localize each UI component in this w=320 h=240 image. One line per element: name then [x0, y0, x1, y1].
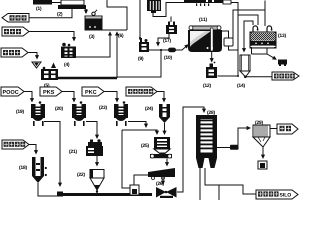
- wire neutralizer to tank (4): [29, 32, 74, 41]
- wire nested loop C to column (14): [244, 21, 253, 52]
- wire furnace right pipe: [222, 31, 229, 38]
- wire (20) to (21): [86, 122, 97, 139]
- label (26): [156, 181, 164, 186]
- wire (19) out: [44, 122, 60, 187]
- wire tower legs down: [199, 168, 201, 200]
- thick conveyor bar: [60, 193, 152, 196]
- pump (10): [168, 48, 176, 53]
- label (18): [19, 165, 27, 170]
- wire nested loop A: [233, 1, 265, 39]
- wire cyclone bottom to collector: [262, 147, 264, 158]
- callout hammer mill: [126, 87, 157, 96]
- tank (3): [85, 16, 102, 30]
- label (5): [44, 83, 49, 88]
- wire cake to (18): [29, 145, 36, 154]
- wire stub to (17): [170, 17, 172, 23]
- small box top right of dashes: [223, 0, 231, 4]
- mixer (5): [41, 63, 58, 81]
- wire branch down: [218, 185, 220, 200]
- callout dewatered cake: [2, 140, 29, 149]
- wire main line to furnace: [149, 45, 188, 50]
- label (13): [278, 33, 286, 38]
- tank (20): [72, 101, 86, 126]
- dryer (1) cut off at top: [33, 0, 52, 5]
- wire (17) down to main line: [158, 34, 169, 46]
- tower (28): [196, 115, 217, 168]
- reactor (4): [61, 43, 76, 58]
- mixer (25): [154, 137, 170, 156]
- wire (2) to tank (3): [85, 9, 87, 13]
- label (28): [207, 110, 215, 115]
- wire (4) to collect: [76, 32, 110, 57]
- label (17): [163, 38, 171, 43]
- pump on tower outlet: [230, 145, 239, 150]
- pot (17): [166, 22, 177, 35]
- granulator (21): [86, 139, 103, 156]
- wire hot-air to (2): [29, 9, 72, 18]
- wire (1)-(2): [52, 2, 61, 4]
- wire (18) out to bar: [38, 183, 58, 196]
- wire nested loop B: [238, 15, 258, 25]
- wire (26) down to fan: [162, 177, 164, 184]
- label (24): [145, 106, 153, 111]
- wire return down left: [122, 130, 130, 188]
- hopper (18): [32, 157, 47, 183]
- wire cross line y130: [122, 130, 157, 134]
- wire cyclone to discharge: [270, 128, 277, 130]
- label (6): [118, 33, 123, 38]
- junction block: [57, 192, 63, 197]
- wire (22) to bar: [96, 190, 98, 193]
- label (14): [237, 83, 245, 88]
- label (25): [141, 143, 149, 148]
- label (11): [199, 17, 207, 22]
- pump (15): [278, 60, 287, 67]
- vessel (12): [206, 62, 217, 78]
- funnel: [32, 62, 41, 68]
- wire (8) out top line: [153, 3, 238, 77]
- wire staircase top feed: [107, 0, 127, 30]
- condenser (13): [250, 26, 276, 48]
- label (4): [64, 62, 69, 67]
- label (3): [89, 34, 94, 39]
- wire tower outlet: [217, 147, 230, 149]
- collect box (27): [130, 185, 139, 195]
- callout discharge: [277, 124, 298, 134]
- callout hot-air blower: [2, 14, 29, 23]
- wire down from main line to riser junction: [117, 50, 161, 77]
- wire tower bottom to silo line: [205, 168, 256, 194]
- callout neutralizer: [2, 27, 29, 36]
- junction dot (14) bottom: [245, 76, 247, 78]
- pot (9): [139, 38, 149, 52]
- label (19): [16, 109, 24, 114]
- callout liquid fertilizer out: [272, 72, 299, 80]
- wire conveyor to (26): [166, 159, 168, 166]
- label (12): [203, 83, 211, 88]
- wire PKC to (23): [104, 92, 117, 102]
- wire (5) thick outlet: [58, 77, 117, 80]
- wire (13) legs to pump: [252, 48, 268, 54]
- label (20): [55, 106, 63, 111]
- wire (26) left to box: [134, 175, 148, 185]
- wire (24) to (25): [164, 123, 166, 134]
- label (22): [77, 172, 85, 177]
- wire pump up to cyclone: [238, 128, 250, 145]
- junction dot (12) line: [237, 75, 239, 77]
- wire (21) to (22): [96, 156, 98, 166]
- port on tank (3): [92, 10, 97, 16]
- column (14): [240, 55, 250, 78]
- wire furnace to (12): [211, 52, 213, 62]
- feeder (26): [148, 168, 175, 180]
- wire (14) to liquid outlet: [246, 76, 273, 78]
- label (2): [57, 12, 62, 17]
- label (23): [99, 105, 107, 110]
- wire POOC to (19): [24, 92, 32, 102]
- valve box: [224, 38, 233, 46]
- label (9): [138, 56, 143, 61]
- top dashes over furnace: [184, 0, 230, 6]
- wire collect line from (3): [102, 29, 127, 31]
- wire PKS to (20): [62, 92, 74, 102]
- wire fan recycle loop to tower: [177, 107, 204, 192]
- wire valve down to riser: [229, 46, 239, 50]
- callout coagulant: [1, 48, 28, 57]
- furnace (11): [188, 26, 222, 52]
- label (10): [164, 55, 172, 60]
- collector box under cyclone: [258, 161, 267, 169]
- wire riser to collect: [116, 32, 118, 78]
- label (21): [69, 149, 77, 154]
- cyclone (29): [253, 125, 270, 147]
- conveyor under (25): [150, 154, 172, 158]
- wire (23) out: [128, 122, 146, 128]
- wire mill to (24): [157, 92, 164, 102]
- conveyor (2): [58, 0, 86, 9]
- hopper (24): [159, 104, 170, 123]
- tank (23): [114, 101, 128, 126]
- label (1): [36, 6, 41, 11]
- callout PKC: [82, 87, 104, 96]
- wire coagulant to funnel: [28, 53, 37, 59]
- label (29): [255, 120, 263, 125]
- wire feed into (9): [139, 0, 141, 40]
- callout granule powder silo: [256, 190, 298, 199]
- tank (19): [31, 101, 45, 126]
- callout PKS: [40, 87, 62, 96]
- callout POOC: [1, 87, 24, 96]
- blower (8): [147, 0, 161, 13]
- fan: [156, 187, 177, 198]
- hopper (22): [90, 170, 104, 191]
